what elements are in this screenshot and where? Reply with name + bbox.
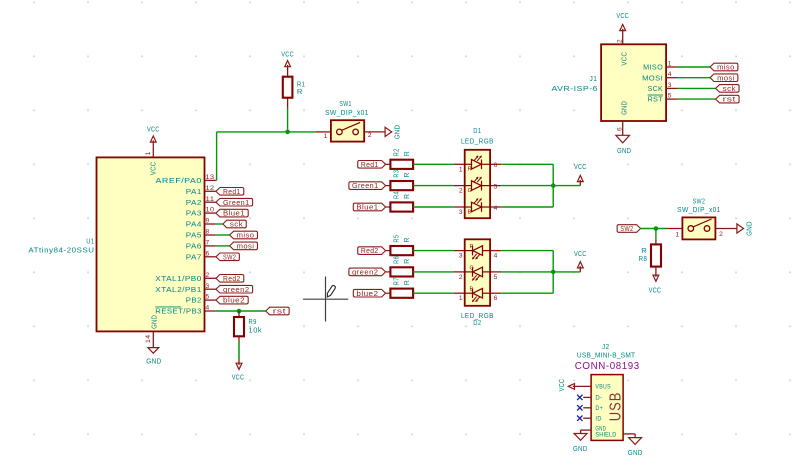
svg-text:mosi: mosi: [717, 73, 735, 82]
svg-text:PA5: PA5: [186, 231, 202, 240]
svg-text:LED_RGB: LED_RGB: [461, 137, 494, 146]
svg-text:SW_DIP_x01: SW_DIP_x01: [325, 108, 369, 117]
svg-text:5: 5: [494, 274, 498, 281]
svg-text:SW1: SW1: [339, 99, 352, 108]
svg-text:MISO: MISO: [643, 63, 663, 72]
svg-text:miso: miso: [717, 63, 735, 72]
svg-text:2: 2: [719, 231, 723, 238]
svg-text:Red1: Red1: [361, 160, 379, 169]
svg-text:1: 1: [459, 295, 463, 302]
svg-text:GND: GND: [619, 101, 628, 115]
svg-text:blue2: blue2: [356, 289, 378, 298]
svg-text:5: 5: [668, 93, 672, 100]
svg-text:Blue1: Blue1: [223, 209, 245, 218]
svg-text:1: 1: [676, 232, 680, 239]
svg-text:SHIELD: SHIELD: [595, 431, 616, 438]
svg-text:10k: 10k: [249, 326, 263, 335]
svg-text:4: 4: [494, 205, 498, 212]
svg-text:PA4: PA4: [186, 220, 202, 229]
svg-text:7: 7: [206, 240, 210, 247]
svg-text:D1: D1: [473, 126, 481, 135]
svg-text:R: R: [468, 167, 472, 173]
svg-text:6: 6: [494, 162, 498, 169]
svg-text:2: 2: [368, 132, 372, 139]
svg-text:12: 12: [206, 185, 215, 192]
svg-text:R: R: [404, 151, 411, 157]
svg-text:6: 6: [494, 295, 498, 302]
svg-text:3: 3: [459, 253, 463, 260]
svg-text:USB: USB: [607, 392, 624, 422]
svg-text:green2: green2: [352, 267, 379, 276]
svg-text:8: 8: [206, 229, 210, 236]
svg-text:R4: R4: [394, 191, 401, 199]
svg-text:R9: R9: [249, 317, 257, 326]
svg-text:GND: GND: [745, 221, 754, 236]
svg-text:SW_DIP_x01: SW_DIP_x01: [677, 205, 721, 214]
svg-text:G: G: [470, 265, 474, 271]
svg-text:VCC: VCC: [619, 52, 628, 66]
svg-text:D-: D-: [595, 395, 602, 402]
svg-text:Blue1: Blue1: [356, 203, 378, 212]
svg-text:D2: D2: [473, 318, 481, 327]
svg-text:11: 11: [206, 196, 215, 203]
svg-text:R2: R2: [394, 148, 401, 156]
svg-text:5: 5: [494, 183, 498, 190]
svg-text:RST: RST: [648, 95, 664, 104]
svg-text:VCC: VCC: [232, 373, 245, 382]
svg-text:SW2: SW2: [620, 224, 633, 233]
svg-text:ID: ID: [595, 416, 601, 423]
svg-text:R: R: [404, 193, 411, 199]
svg-text:Red2: Red2: [361, 246, 379, 255]
svg-text:VCC: VCC: [574, 162, 587, 171]
svg-text:mosi: mosi: [237, 241, 255, 250]
svg-text:1: 1: [324, 133, 328, 140]
svg-text:Red1: Red1: [223, 187, 241, 196]
svg-text:3: 3: [459, 209, 463, 216]
svg-text:R3: R3: [394, 170, 401, 178]
svg-text:B: B: [470, 287, 474, 293]
svg-text:VCC: VCC: [649, 286, 662, 295]
svg-text:R5: R5: [394, 235, 401, 243]
svg-text:R8: R8: [639, 254, 648, 263]
svg-text:Red2: Red2: [223, 274, 241, 283]
svg-text:GND: GND: [146, 357, 161, 366]
svg-text:VCC: VCC: [557, 379, 566, 392]
svg-text:GND: GND: [573, 444, 588, 453]
svg-text:2: 2: [459, 188, 463, 195]
svg-text:2: 2: [459, 274, 463, 281]
svg-text:RESET/PB3: RESET/PB3: [155, 307, 202, 316]
svg-text:14: 14: [145, 334, 152, 343]
svg-text:PA1: PA1: [186, 187, 202, 196]
svg-text:VCC: VCC: [574, 249, 587, 258]
svg-text:R: R: [404, 258, 411, 264]
svg-text:R6: R6: [394, 256, 401, 264]
svg-text:J1: J1: [590, 74, 598, 83]
svg-text:ATtiny84-20SSU: ATtiny84-20SSU: [28, 245, 94, 254]
svg-text:3: 3: [668, 82, 672, 89]
svg-text:XTAL1/PB0: XTAL1/PB0: [155, 274, 202, 283]
svg-text:D+: D+: [595, 405, 603, 412]
svg-text:6: 6: [206, 250, 210, 257]
svg-text:1: 1: [145, 151, 152, 155]
svg-text:GND: GND: [393, 125, 402, 140]
svg-text:4: 4: [668, 71, 672, 78]
svg-text:GND: GND: [617, 146, 631, 155]
svg-text:R: R: [404, 237, 411, 243]
svg-text:AVR-ISP-6: AVR-ISP-6: [552, 84, 599, 93]
svg-text:VCC: VCC: [149, 161, 158, 175]
svg-text:13: 13: [206, 174, 215, 181]
svg-text:Green1: Green1: [223, 198, 250, 207]
svg-text:AREF/PA0: AREF/PA0: [156, 176, 202, 185]
svg-text:sck: sck: [230, 220, 243, 229]
svg-text:GND: GND: [628, 448, 643, 457]
svg-text:VCC: VCC: [147, 125, 160, 134]
svg-text:R: R: [470, 244, 474, 250]
svg-text:4: 4: [494, 253, 498, 260]
svg-text:2: 2: [206, 272, 210, 279]
svg-text:SCK: SCK: [648, 84, 664, 93]
svg-text:R: R: [297, 87, 303, 96]
svg-text:VCC: VCC: [616, 11, 629, 20]
svg-text:VBUS: VBUS: [595, 384, 611, 391]
svg-text:PA7: PA7: [186, 252, 202, 261]
svg-text:CONN-08193: CONN-08193: [575, 361, 640, 372]
svg-text:MOSI: MOSI: [642, 73, 663, 82]
svg-text:PB2: PB2: [186, 296, 202, 305]
svg-text:U1: U1: [86, 237, 94, 246]
svg-text:2: 2: [616, 39, 623, 43]
svg-text:R: R: [404, 172, 411, 178]
svg-text:PA2: PA2: [186, 198, 202, 207]
svg-text:miso: miso: [237, 231, 255, 240]
svg-text:3: 3: [206, 283, 210, 290]
svg-text:1: 1: [668, 61, 672, 68]
svg-text:green2: green2: [223, 285, 250, 294]
svg-text:SW2: SW2: [693, 196, 706, 205]
svg-text:B: B: [468, 209, 472, 215]
svg-text:rst: rst: [273, 307, 286, 316]
svg-text:4: 4: [206, 305, 210, 312]
svg-text:PA6: PA6: [186, 242, 202, 251]
svg-text:SW2: SW2: [223, 252, 236, 261]
svg-text:VCC: VCC: [281, 50, 294, 59]
svg-text:PA3: PA3: [186, 209, 202, 218]
svg-text:10: 10: [206, 207, 215, 214]
svg-text:XTAL2/PB1: XTAL2/PB1: [155, 285, 202, 294]
svg-text:R7: R7: [394, 277, 401, 285]
svg-text:sck: sck: [723, 84, 736, 93]
svg-text:1: 1: [459, 166, 463, 173]
svg-text:5: 5: [206, 294, 210, 301]
svg-text:6: 6: [616, 127, 623, 131]
svg-text:G: G: [468, 188, 472, 194]
svg-text:blue2: blue2: [223, 296, 245, 305]
svg-text:GND: GND: [150, 315, 159, 329]
svg-text:USB_MINI-B_SMT: USB_MINI-B_SMT: [577, 350, 635, 359]
svg-text:rst: rst: [723, 95, 736, 104]
svg-text:9: 9: [206, 218, 210, 225]
svg-text:R: R: [404, 280, 411, 286]
svg-text:Green1: Green1: [352, 181, 379, 190]
